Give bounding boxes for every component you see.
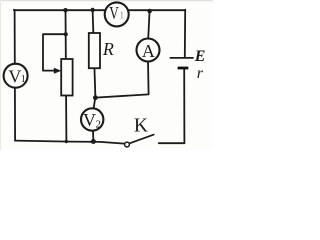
- svg-text:V: V: [8, 67, 21, 87]
- svg-text:r: r: [197, 65, 204, 82]
- svg-text:A: A: [142, 41, 155, 61]
- svg-text:2: 2: [96, 118, 102, 130]
- svg-text:1: 1: [21, 74, 26, 85]
- svg-text:V: V: [109, 3, 119, 23]
- svg-text:V: V: [83, 110, 96, 130]
- svg-text:E: E: [194, 48, 206, 65]
- svg-text:K: K: [134, 115, 148, 136]
- svg-text:R: R: [102, 39, 114, 59]
- svg-text:1: 1: [119, 10, 124, 21]
